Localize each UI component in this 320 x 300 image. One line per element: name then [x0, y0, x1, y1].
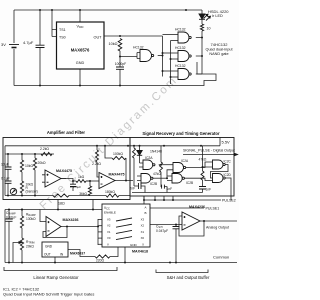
- svg-text:5.5V: 5.5V: [222, 140, 231, 145]
- svg-text:A: A: [145, 206, 147, 210]
- svg-text:2.2kΩ: 2.2kΩ: [40, 147, 49, 151]
- svg-text:V2: V2: [107, 224, 111, 228]
- svg-text:0.47µF: 0.47µF: [6, 215, 16, 219]
- svg-text:GND: GND: [130, 243, 138, 247]
- svg-text:MAX4475: MAX4475: [109, 173, 125, 177]
- svg-text:Ir LED: Ir LED: [212, 14, 223, 18]
- svg-text:20kΩ: 20kΩ: [38, 161, 46, 165]
- svg-text:180kΩ: 180kΩ: [105, 190, 115, 194]
- svg-text:SIGNAL_PULSE - Digital Output: SIGNAL_PULSE - Digital Output: [183, 148, 235, 152]
- svg-text:3V: 3V: [1, 42, 6, 47]
- svg-text:VDD: VDD: [77, 25, 85, 30]
- svg-text:1000pF: 1000pF: [115, 62, 127, 66]
- svg-text:X1: X1: [141, 230, 145, 234]
- svg-text:36kΩ: 36kΩ: [79, 192, 87, 196]
- svg-text:HC132: HC132: [175, 64, 186, 68]
- svg-text:IC2D: IC2D: [224, 173, 232, 177]
- svg-text:TS0: TS0: [59, 36, 66, 40]
- svg-text:10µF: 10µF: [1, 163, 9, 167]
- svg-text:IC2A: IC2A: [145, 156, 153, 160]
- svg-text:V0: V0: [107, 236, 111, 240]
- svg-text:MAX4236: MAX4236: [189, 205, 205, 209]
- svg-text:Amplifier and Filter: Amplifier and Filter: [47, 130, 86, 135]
- svg-text:1kΩ: 1kΩ: [78, 175, 85, 179]
- svg-text:Signal Recovery and Timing Gen: Signal Recovery and Timing Generator: [142, 131, 220, 136]
- svg-text:MAX4475: MAX4475: [56, 169, 72, 173]
- svg-text:2.2kΩ: 2.2kΩ: [92, 162, 101, 166]
- svg-text:74HC132: 74HC132: [211, 42, 229, 47]
- svg-text:OUT: OUT: [93, 36, 102, 40]
- svg-text:0.1µF: 0.1µF: [1, 177, 10, 181]
- svg-text:220Ω: 220Ω: [96, 259, 105, 263]
- svg-text:ENABLE: ENABLE: [104, 211, 116, 215]
- svg-text:1nF: 1nF: [167, 187, 173, 191]
- svg-text:S&H and Output Buffer: S&H and Output Buffer: [167, 275, 210, 280]
- svg-text:X0: X0: [141, 236, 145, 240]
- svg-text:4.7µF: 4.7µF: [23, 40, 34, 45]
- svg-text:1N4148: 1N4148: [150, 149, 162, 153]
- svg-text:HC132: HC132: [133, 45, 144, 49]
- svg-text:PULSE1: PULSE1: [206, 207, 220, 211]
- svg-text:IC2A: IC2A: [181, 159, 189, 163]
- svg-text:2nF: 2nF: [130, 187, 136, 191]
- svg-text:47kΩ: 47kΩ: [199, 158, 207, 162]
- svg-text:130kΩ: 130kΩ: [26, 217, 36, 221]
- svg-text:20kΩ: 20kΩ: [26, 245, 34, 249]
- svg-text:GND: GND: [76, 61, 85, 65]
- svg-text:1nF: 1nF: [206, 188, 212, 192]
- svg-text:MAX4618: MAX4618: [132, 250, 148, 254]
- svg-text:(Sensor): (Sensor): [26, 190, 38, 194]
- svg-text:IC2B: IC2B: [186, 181, 193, 185]
- svg-text:V1: V1: [107, 230, 111, 234]
- svg-text:Quad Dual Input NAND Schmitt T: Quad Dual Input NAND Schmitt Trigger Inp…: [3, 292, 94, 297]
- svg-text:X3: X3: [141, 218, 145, 222]
- svg-text:Quad dual-input: Quad dual-input: [205, 48, 233, 52]
- svg-text:10kΩ: 10kΩ: [25, 164, 33, 168]
- svg-text:IC2C: IC2C: [224, 160, 232, 164]
- svg-text:TS1: TS1: [59, 28, 66, 32]
- svg-text:PULSE2: PULSE2: [222, 199, 236, 203]
- svg-text:18Ω: 18Ω: [58, 202, 65, 206]
- svg-text:Linear Ramp Generator: Linear Ramp Generator: [33, 275, 79, 280]
- svg-text:Analog Output: Analog Output: [206, 226, 229, 230]
- svg-text:B: B: [145, 211, 147, 215]
- svg-text:0.015µF: 0.015µF: [70, 185, 81, 189]
- svg-text:HC132: HC132: [175, 46, 186, 50]
- svg-text:MAX6576: MAX6576: [71, 48, 90, 53]
- svg-text:HC132: HC132: [175, 28, 186, 32]
- svg-text:10: 10: [207, 27, 211, 31]
- svg-text:X: X: [142, 242, 144, 246]
- svg-text:IC2B: IC2B: [150, 182, 157, 186]
- svg-text:MAX4236: MAX4236: [63, 218, 79, 222]
- svg-text:10kΩ: 10kΩ: [109, 42, 118, 46]
- svg-text:GND: GND: [45, 245, 53, 249]
- svg-text:0.047µF: 0.047µF: [156, 229, 168, 233]
- svg-text:NAND gate: NAND gate: [209, 52, 228, 56]
- svg-text:V: V: [107, 242, 109, 246]
- svg-text:V3: V3: [107, 218, 111, 222]
- svg-text:47kΩ: 47kΩ: [153, 172, 161, 176]
- svg-text:OUT: OUT: [44, 253, 51, 257]
- svg-text:100kΩ: 100kΩ: [113, 152, 123, 156]
- svg-text:Common: Common: [213, 255, 229, 260]
- svg-text:X2: X2: [141, 224, 145, 228]
- svg-text:MAX6037: MAX6037: [70, 252, 85, 256]
